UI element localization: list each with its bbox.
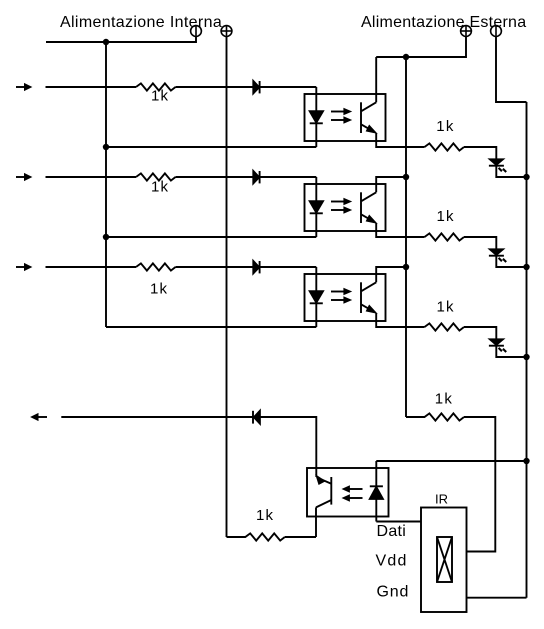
input arrow 1 bbox=[16, 83, 32, 91]
power terminal minus (Interna) bbox=[191, 26, 202, 37]
opto2 LED bbox=[310, 177, 323, 237]
wire LED3 to ext minus bus bbox=[496, 346, 526, 357]
resistor R3 bbox=[136, 263, 176, 270]
resistor R8 bbox=[406, 413, 464, 420]
svg-text:1k: 1k bbox=[256, 507, 274, 524]
opto2 phototransistor bbox=[361, 192, 377, 223]
wire Dati bbox=[376, 521, 421, 523]
wire opto2 LED return bbox=[106, 236, 316, 238]
svg-text:1k: 1k bbox=[435, 391, 453, 408]
resistor R7 bbox=[227, 533, 285, 540]
svg-text:Alimentazione Interna: Alimentazione Interna bbox=[60, 14, 222, 31]
node junction rail/bus bbox=[103, 39, 109, 45]
node junction external plus bbox=[403, 54, 409, 60]
wire external plus bus bbox=[405, 57, 407, 417]
node junction LED3/bus bbox=[523, 354, 529, 360]
opto3 package bbox=[305, 274, 386, 321]
LED2 emission arrows bbox=[499, 258, 507, 262]
opto4 emission arrows bbox=[342, 485, 363, 501]
wire R6 to LED3 bbox=[464, 327, 496, 339]
LED indicator 3 bbox=[489, 339, 504, 345]
opto2 package bbox=[305, 184, 386, 231]
wire opto1 collector bbox=[375, 57, 377, 102]
resistor R1 bbox=[136, 83, 176, 90]
wire opto1 emitter bbox=[376, 133, 424, 147]
node junction return 1 bbox=[103, 144, 109, 150]
wire opto4 collector bbox=[315, 507, 317, 537]
opto1 package bbox=[305, 94, 386, 141]
wire input 2 bbox=[46, 176, 137, 178]
resistor R2 bbox=[136, 173, 176, 180]
wire D2 to opto2 LED bbox=[260, 176, 317, 178]
svg-text:1k: 1k bbox=[151, 88, 169, 105]
IR sensor crossed box bbox=[437, 537, 452, 582]
node junction opto4/bus bbox=[523, 458, 529, 464]
resistor R5 bbox=[425, 233, 465, 240]
wire external plus rail bbox=[376, 36, 466, 57]
node junction opto2 collector/bus bbox=[403, 174, 409, 180]
LED indicator 1 bbox=[489, 159, 504, 165]
wire input 1 bbox=[46, 86, 137, 88]
wire opto2 collector bbox=[376, 177, 406, 192]
wire D4 to opto4 bbox=[260, 417, 316, 477]
LED3 emission arrows bbox=[499, 348, 507, 352]
wire internal minus rail bbox=[46, 36, 196, 42]
svg-text:1k: 1k bbox=[437, 299, 455, 316]
wire R7 to opto4 collector bbox=[285, 536, 316, 538]
opto3 emission arrows bbox=[331, 288, 352, 304]
wire output bbox=[61, 416, 253, 418]
wire R5 to LED2 bbox=[464, 237, 496, 249]
wire D1 to opto1 LED bbox=[260, 86, 317, 88]
input arrow 3 bbox=[16, 263, 32, 271]
svg-text:1k: 1k bbox=[436, 118, 454, 135]
resistor R4 bbox=[425, 143, 465, 150]
wire internal plus bus bbox=[226, 36, 228, 537]
resistor R6 bbox=[425, 323, 465, 330]
opto3 LED bbox=[310, 267, 323, 327]
wire R3 to D3 bbox=[176, 266, 254, 268]
wire R1 to D1 bbox=[176, 86, 254, 88]
opto1 phototransistor bbox=[361, 102, 377, 133]
wire Gnd bbox=[467, 597, 527, 599]
wire R8 to Vdd bbox=[464, 417, 495, 552]
wire external minus bus bbox=[526, 102, 528, 598]
wire opto3 LED return bbox=[106, 326, 316, 328]
LED indicator 2 bbox=[489, 249, 504, 255]
power terminal minus (Esterna) bbox=[491, 26, 502, 37]
wire opto4 LED anode to ext minus bus bbox=[376, 460, 526, 462]
wire opto3 collector bbox=[376, 267, 406, 282]
power terminal plus (Esterna) bbox=[461, 26, 472, 37]
svg-text:Vdd: Vdd bbox=[376, 553, 408, 570]
IC IR receiver bbox=[421, 508, 467, 613]
wire external minus drop bbox=[496, 36, 527, 102]
diode D1 bbox=[253, 81, 259, 93]
wire LED2 to ext minus bus bbox=[496, 256, 526, 267]
opto4 phototransistor bbox=[316, 475, 331, 507]
input arrow 2 bbox=[16, 173, 32, 181]
diode D2 bbox=[253, 171, 259, 183]
node junction return 2 bbox=[103, 234, 109, 240]
opto4 LED bbox=[370, 461, 383, 522]
wire input 3 bbox=[46, 266, 137, 268]
wire opto2 emitter bbox=[376, 223, 424, 237]
node junction opto3 collector/bus bbox=[403, 264, 409, 270]
node junction LED2/bus bbox=[523, 264, 529, 270]
output arrow bbox=[30, 413, 47, 421]
opto2 emission arrows bbox=[331, 198, 352, 214]
svg-text:Dati: Dati bbox=[377, 523, 407, 540]
opto3 phototransistor bbox=[361, 282, 377, 313]
opto1 LED bbox=[310, 87, 323, 147]
diode D4 bbox=[253, 411, 260, 424]
svg-text:1k: 1k bbox=[437, 208, 455, 225]
node junction LED1/bus bbox=[523, 174, 529, 180]
power terminal plus (Interna) bbox=[221, 26, 232, 37]
opto4 package bbox=[307, 468, 389, 517]
wire D3 to opto3 LED bbox=[260, 266, 317, 268]
svg-text:Gnd: Gnd bbox=[377, 584, 410, 601]
svg-text:IR: IR bbox=[435, 492, 448, 507]
opto1 emission arrows bbox=[331, 108, 352, 124]
LED1 emission arrows bbox=[499, 168, 507, 172]
diode D3 bbox=[253, 261, 259, 273]
wire LED1 to ext minus bus bbox=[496, 166, 526, 177]
svg-text:1k: 1k bbox=[150, 281, 168, 298]
wire opto1 LED return bbox=[106, 146, 316, 148]
wire R2 to D2 bbox=[176, 176, 254, 178]
wire opto3 emitter bbox=[376, 313, 424, 327]
wire internal minus bus bbox=[105, 42, 107, 327]
wire R4 to LED1 bbox=[464, 147, 496, 159]
svg-text:1k: 1k bbox=[151, 179, 169, 196]
